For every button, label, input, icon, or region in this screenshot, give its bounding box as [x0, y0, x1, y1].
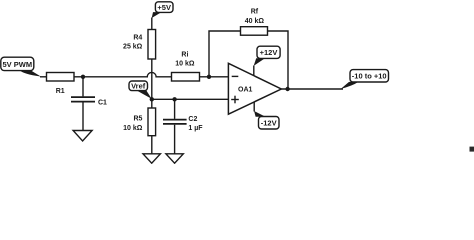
svg-text:R1: R1: [56, 88, 65, 95]
svg-text:R5: R5: [133, 115, 142, 122]
svg-text:-10 to +10: -10 to +10: [352, 72, 387, 81]
svg-text:C2: C2: [188, 116, 197, 123]
svg-text:C1: C1: [98, 99, 107, 106]
svg-text:+12V: +12V: [260, 48, 278, 57]
svg-text:10 kΩ: 10 kΩ: [123, 125, 143, 132]
svg-text:+5V: +5V: [157, 3, 171, 12]
svg-text:Ri: Ri: [181, 51, 188, 58]
svg-text:Vref: Vref: [131, 82, 146, 91]
svg-text:10 kΩ: 10 kΩ: [175, 61, 195, 68]
svg-text:5V PWM: 5V PWM: [3, 60, 33, 69]
svg-text:-12V: -12V: [261, 119, 277, 128]
svg-text:Rf: Rf: [251, 9, 259, 16]
svg-text:25 kΩ: 25 kΩ: [123, 43, 143, 50]
svg-text:40 kΩ: 40 kΩ: [245, 18, 265, 25]
svg-text:OA1: OA1: [238, 86, 253, 93]
svg-text:R4: R4: [133, 34, 142, 41]
svg-text:1 µF: 1 µF: [188, 125, 203, 132]
